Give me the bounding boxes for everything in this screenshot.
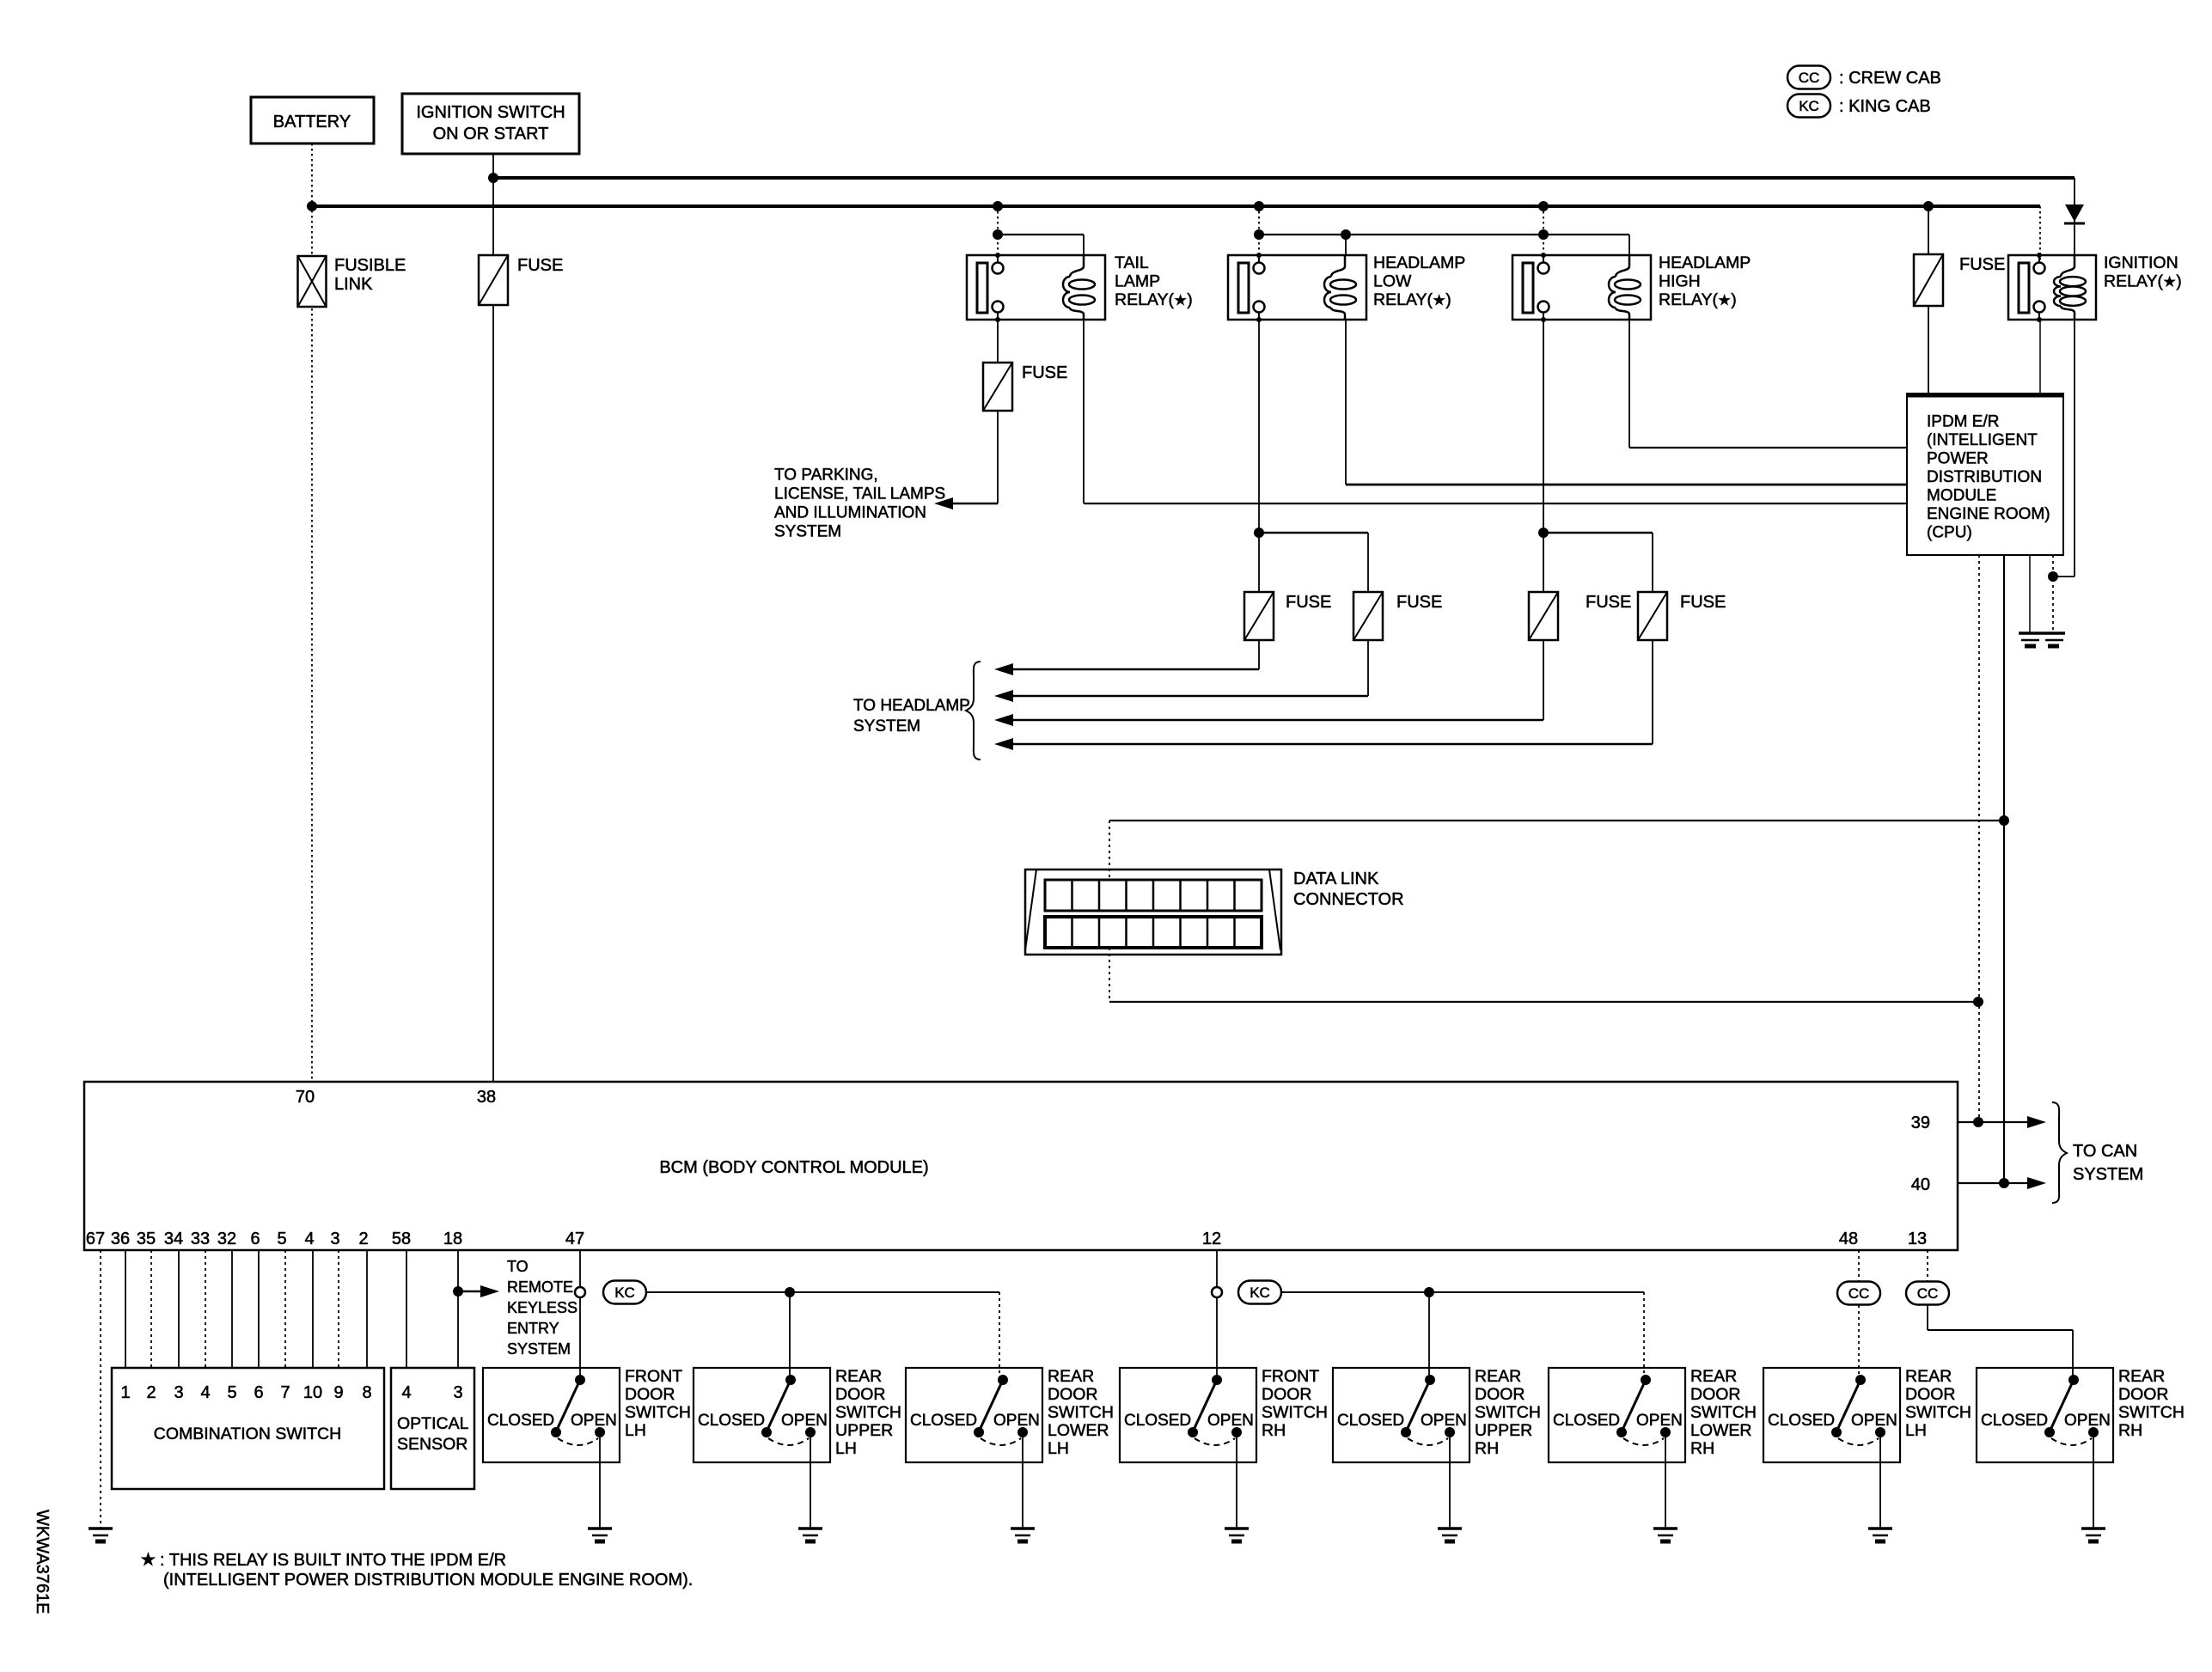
svg-text:REAR: REAR	[1048, 1367, 1094, 1386]
svg-text:1: 1	[120, 1383, 130, 1402]
svg-text:OPEN: OPEN	[2064, 1412, 2111, 1430]
svg-text:SYSTEM: SYSTEM	[853, 717, 920, 735]
svg-text:3: 3	[174, 1383, 183, 1402]
svg-text:38: 38	[477, 1088, 496, 1107]
svg-text:DOOR: DOOR	[1690, 1385, 1741, 1404]
svg-text:(CPU): (CPU)	[1927, 524, 1972, 542]
svg-text:SYSTEM: SYSTEM	[507, 1340, 571, 1358]
svg-text:DOOR: DOOR	[835, 1385, 886, 1404]
svg-text:SENSOR: SENSOR	[397, 1435, 467, 1454]
svg-text:OPEN: OPEN	[781, 1412, 828, 1430]
svg-text:IGNITION SWITCH: IGNITION SWITCH	[416, 103, 565, 122]
svg-text:HIGH: HIGH	[1659, 272, 1701, 291]
svg-text:ON OR START: ON OR START	[433, 125, 549, 143]
svg-text:ENTRY: ENTRY	[507, 1320, 559, 1337]
svg-text:DOOR: DOOR	[1048, 1385, 1098, 1404]
svg-text:: CREW CAB: : CREW CAB	[1839, 69, 1941, 88]
svg-text:SYSTEM: SYSTEM	[774, 523, 841, 541]
svg-text:FUSE: FUSE	[1959, 255, 2005, 274]
svg-text:CLOSED: CLOSED	[1337, 1412, 1404, 1430]
svg-text:DOOR: DOOR	[1262, 1385, 1312, 1404]
svg-text:3: 3	[330, 1230, 339, 1248]
svg-text:2: 2	[146, 1383, 156, 1402]
svg-text:TO CAN: TO CAN	[2073, 1142, 2137, 1161]
svg-text:48: 48	[1839, 1230, 1858, 1248]
svg-text:CLOSED: CLOSED	[910, 1412, 977, 1430]
svg-text:DISTRIBUTION: DISTRIBUTION	[1927, 468, 2042, 486]
svg-text:OPTICAL: OPTICAL	[397, 1414, 469, 1433]
svg-text:8: 8	[362, 1383, 371, 1402]
svg-text:WKWA3761E: WKWA3761E	[33, 1510, 52, 1614]
svg-text:RH: RH	[2118, 1421, 2142, 1440]
svg-text:REAR: REAR	[1690, 1367, 1737, 1386]
svg-text:18: 18	[443, 1230, 462, 1248]
svg-text:(INTELLIGENT POWER DISTRIBUTIO: (INTELLIGENT POWER DISTRIBUTION MODULE E…	[163, 1571, 693, 1590]
svg-text:DOOR: DOOR	[625, 1385, 675, 1404]
svg-text:6: 6	[254, 1383, 263, 1402]
svg-text:UPPER: UPPER	[1475, 1421, 1532, 1440]
svg-text:REAR: REAR	[1475, 1367, 1521, 1386]
svg-text:SWITCH: SWITCH	[1905, 1403, 1971, 1422]
svg-text:TO PARKING,: TO PARKING,	[774, 467, 878, 485]
svg-text:FUSE: FUSE	[1286, 593, 1331, 612]
svg-text:CLOSED: CLOSED	[1553, 1412, 1620, 1430]
svg-text:LOW: LOW	[1373, 272, 1412, 291]
svg-text:2: 2	[358, 1230, 368, 1248]
svg-text:FUSIBLE: FUSIBLE	[334, 256, 406, 275]
svg-text:5: 5	[277, 1230, 286, 1248]
svg-text:RELAY(★): RELAY(★)	[1659, 290, 1737, 309]
svg-text:FUSE: FUSE	[1586, 593, 1631, 612]
svg-text:70: 70	[296, 1088, 315, 1107]
svg-text:FUSE: FUSE	[1680, 593, 1726, 612]
svg-text:FUSE: FUSE	[1396, 593, 1442, 612]
svg-text:SWITCH: SWITCH	[625, 1403, 691, 1422]
svg-text:SWITCH: SWITCH	[1048, 1403, 1114, 1422]
svg-text:SWITCH: SWITCH	[835, 1403, 901, 1422]
svg-text:FRONT: FRONT	[1262, 1367, 1319, 1386]
svg-text:LH: LH	[625, 1421, 646, 1440]
svg-text:TO HEADLAMP: TO HEADLAMP	[853, 697, 970, 715]
svg-text:CC: CC	[1917, 1285, 1939, 1302]
svg-text:★: ★	[140, 1550, 156, 1570]
svg-text:UPPER: UPPER	[835, 1421, 893, 1440]
svg-text:: KING CAB: : KING CAB	[1839, 97, 1931, 116]
svg-text:67: 67	[86, 1230, 105, 1248]
svg-text:OPEN: OPEN	[993, 1412, 1040, 1430]
svg-text:34: 34	[164, 1230, 183, 1248]
svg-text:DOOR: DOOR	[1905, 1385, 1956, 1404]
svg-text:9: 9	[333, 1383, 343, 1402]
svg-text:BCM (BODY CONTROL MODULE): BCM (BODY CONTROL MODULE)	[659, 1158, 928, 1177]
svg-text:HEADLAMP: HEADLAMP	[1659, 253, 1751, 272]
svg-text:RELAY(★): RELAY(★)	[1373, 290, 1451, 309]
svg-text:3: 3	[453, 1383, 462, 1402]
svg-text:REAR: REAR	[2118, 1367, 2165, 1386]
svg-text:LICENSE, TAIL LAMPS: LICENSE, TAIL LAMPS	[774, 485, 945, 503]
svg-text:SWITCH: SWITCH	[1475, 1403, 1541, 1422]
svg-text:DATA LINK: DATA LINK	[1293, 870, 1379, 888]
svg-text:RELAY(★): RELAY(★)	[2104, 272, 2182, 291]
svg-text:BATTERY: BATTERY	[273, 113, 351, 131]
svg-text:58: 58	[392, 1230, 411, 1248]
svg-text:IPDM E/R: IPDM E/R	[1927, 413, 1999, 431]
svg-text:OPEN: OPEN	[1207, 1412, 1254, 1430]
svg-text:LOWER: LOWER	[1048, 1421, 1109, 1440]
svg-text:CLOSED: CLOSED	[698, 1412, 765, 1430]
svg-text:POWER: POWER	[1927, 450, 1989, 468]
svg-text:LH: LH	[835, 1439, 857, 1458]
svg-text:KEYLESS: KEYLESS	[507, 1299, 577, 1316]
svg-text:ENGINE ROOM): ENGINE ROOM)	[1927, 505, 2050, 523]
svg-text:CONNECTOR: CONNECTOR	[1293, 890, 1404, 909]
svg-text:SWITCH: SWITCH	[1690, 1403, 1757, 1422]
svg-text:4: 4	[304, 1230, 314, 1248]
svg-text:47: 47	[565, 1230, 584, 1248]
svg-text:RELAY(★): RELAY(★)	[1115, 290, 1193, 309]
svg-text:4: 4	[200, 1383, 210, 1402]
svg-text:SYSTEM: SYSTEM	[2073, 1165, 2143, 1184]
svg-text:SWITCH: SWITCH	[1262, 1403, 1328, 1422]
svg-text:CLOSED: CLOSED	[487, 1412, 554, 1430]
svg-text:KC: KC	[1250, 1285, 1270, 1301]
svg-text:CLOSED: CLOSED	[1981, 1412, 2048, 1430]
svg-text:OPEN: OPEN	[1421, 1412, 1467, 1430]
svg-text:KC: KC	[614, 1285, 635, 1301]
svg-text:CC: CC	[1799, 70, 1820, 86]
svg-text:OPEN: OPEN	[1851, 1412, 1897, 1430]
svg-text:FRONT: FRONT	[625, 1367, 682, 1386]
svg-text:13: 13	[1908, 1230, 1927, 1248]
svg-text:33: 33	[191, 1230, 210, 1248]
svg-text:LH: LH	[1048, 1439, 1069, 1458]
svg-text:FUSE: FUSE	[517, 256, 563, 275]
svg-text:6: 6	[250, 1230, 260, 1248]
svg-text:AND ILLUMINATION: AND ILLUMINATION	[774, 504, 926, 522]
svg-text:FUSE: FUSE	[1022, 363, 1067, 382]
svg-text:DOOR: DOOR	[2118, 1385, 2169, 1404]
svg-text:LINK: LINK	[334, 275, 373, 294]
svg-text:SWITCH: SWITCH	[2118, 1403, 2185, 1422]
svg-text:CLOSED: CLOSED	[1124, 1412, 1191, 1430]
svg-text:12: 12	[1202, 1230, 1221, 1248]
svg-text:10: 10	[303, 1383, 322, 1402]
svg-text:: THIS RELAY IS BUILT INTO THE: : THIS RELAY IS BUILT INTO THE IPDM E/R	[160, 1551, 506, 1570]
svg-text:DOOR: DOOR	[1475, 1385, 1525, 1404]
svg-text:OPEN: OPEN	[1636, 1412, 1683, 1430]
svg-text:35: 35	[137, 1230, 156, 1248]
svg-text:HEADLAMP: HEADLAMP	[1373, 253, 1465, 272]
svg-text:4: 4	[401, 1383, 411, 1402]
svg-text:REAR: REAR	[1905, 1367, 1952, 1386]
svg-text:TO: TO	[507, 1258, 529, 1275]
svg-text:RH: RH	[1262, 1421, 1286, 1440]
svg-text:COMBINATION SWITCH: COMBINATION SWITCH	[154, 1425, 341, 1443]
svg-text:MODULE: MODULE	[1927, 487, 1996, 505]
svg-text:OPEN: OPEN	[571, 1412, 617, 1430]
svg-text:32: 32	[217, 1230, 236, 1248]
svg-text:IGNITION: IGNITION	[2104, 253, 2178, 272]
svg-text:(INTELLIGENT: (INTELLIGENT	[1927, 431, 2038, 449]
svg-text:RH: RH	[1475, 1439, 1499, 1458]
svg-text:LH: LH	[1905, 1421, 1927, 1440]
svg-text:40: 40	[1911, 1175, 1930, 1194]
svg-text:TAIL: TAIL	[1115, 253, 1149, 272]
svg-text:36: 36	[111, 1230, 130, 1248]
svg-text:39: 39	[1911, 1114, 1930, 1132]
svg-text:RH: RH	[1690, 1439, 1714, 1458]
svg-text:7: 7	[280, 1383, 290, 1402]
svg-text:KC: KC	[1799, 98, 1819, 114]
svg-text:REMOTE: REMOTE	[507, 1278, 573, 1296]
svg-text:REAR: REAR	[835, 1367, 882, 1386]
svg-text:5: 5	[227, 1383, 236, 1402]
svg-text:LAMP: LAMP	[1115, 272, 1160, 291]
svg-text:LOWER: LOWER	[1690, 1421, 1752, 1440]
svg-text:CC: CC	[1848, 1285, 1870, 1302]
svg-text:CLOSED: CLOSED	[1768, 1412, 1835, 1430]
